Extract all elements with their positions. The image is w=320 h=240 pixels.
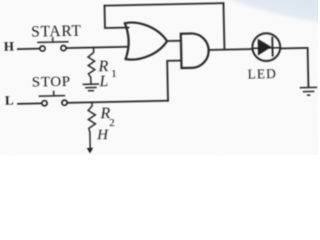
wire STOP switch to AND gate riser xyxy=(67,101,168,103)
wire H to START switch xyxy=(18,48,39,50)
pushbutton START: left contact circle xyxy=(40,46,45,51)
OR gate U1 xyxy=(125,22,168,60)
ground symbol right xyxy=(300,87,316,95)
LED D1: cathode bar xyxy=(271,38,273,56)
pushbutton START: actuator bar xyxy=(38,38,68,43)
pushbutton START: right contact circle xyxy=(61,45,66,50)
pushbutton STOP: actuator bar xyxy=(39,91,64,96)
feedback wire: top rail xyxy=(104,3,223,5)
AND gate U2 xyxy=(181,33,209,68)
svg-text:1: 1 xyxy=(111,68,117,80)
feedback wire: left drop to OR top input xyxy=(104,5,128,28)
LED D1: internal wire xyxy=(253,47,281,50)
LED D1: diode triangle xyxy=(258,38,272,55)
page background xyxy=(0,0,318,155)
resistor R2 (zigzag from STOP line down) xyxy=(88,102,96,132)
ground symbol under R1 (logic L) xyxy=(83,84,98,91)
svg-text:H: H xyxy=(96,127,109,143)
pushbutton STOP: left contact circle xyxy=(42,101,47,106)
resistor R1 (zigzag from START line down) xyxy=(88,47,95,84)
wire START switch to OR gate input xyxy=(66,47,127,48)
arrow down to H rail under R2 xyxy=(89,132,91,148)
page corner blue shading top-right xyxy=(226,0,320,23)
pushbutton STOP: right contact circle xyxy=(62,100,67,105)
svg-text:L: L xyxy=(98,73,108,90)
wire L to STOP switch xyxy=(18,102,41,104)
svg-text:L: L xyxy=(5,92,14,107)
svg-text:H: H xyxy=(4,39,14,54)
feedback wire: right riser from AND output xyxy=(222,3,225,49)
LED D1: outer circle xyxy=(252,33,280,61)
wire OR output to AND input xyxy=(167,40,180,42)
svg-text:2: 2 xyxy=(109,117,115,129)
wire LED to right ground xyxy=(280,48,308,88)
wire riser STOP line up to AND bottom input xyxy=(167,61,181,101)
svg-text:LED: LED xyxy=(247,66,277,82)
svg-text:STOP: STOP xyxy=(32,74,71,91)
wire AND output to LED xyxy=(210,48,252,51)
svg-text:START: START xyxy=(31,23,82,41)
